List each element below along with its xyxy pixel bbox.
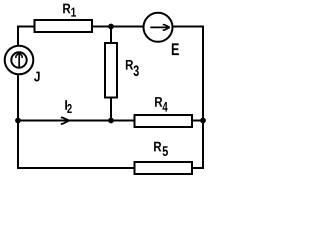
junction: top node where R3 meets top branch (108, 24, 114, 30)
current arrow I2 on middle branch (61, 118, 70, 124)
resistor R1 (35, 20, 93, 32)
wire: right vertical branch (top-right corner down to bottom-right corner) (202, 26, 204, 169)
current source J (double-circle symbol on left branch) (5, 46, 34, 75)
wire: bottom horizontal branch (bottom-left corner to bottom-right corner) (17, 167, 204, 169)
resistor R5 (135, 162, 193, 174)
label I2 (65, 100, 71, 113)
wire: left vertical branch (top-left corner down to bottom-left corner) (17, 26, 19, 169)
label R4 (155, 97, 168, 112)
wire: R3 vertical branch from top node down to middle node (110, 27, 112, 121)
junction: right node of middle branch (200, 118, 206, 124)
label J (34, 72, 40, 82)
label R5 (154, 142, 168, 156)
wire: top horizontal net from top-left corner to top-right corner (17, 26, 203, 28)
voltage source E (circle with arrow on top branch) (144, 13, 173, 42)
label R3 (126, 60, 139, 76)
resistor R4 (135, 115, 193, 127)
junction: middle node where R3 meets middle branch (108, 118, 114, 124)
resistor R3 (105, 43, 117, 98)
label R1 (63, 4, 76, 17)
wire: middle horizontal branch with current I2 (node at x=18 to node at x=203) (18, 120, 203, 122)
junction: left node of middle branch (15, 118, 21, 124)
label E (172, 43, 179, 55)
